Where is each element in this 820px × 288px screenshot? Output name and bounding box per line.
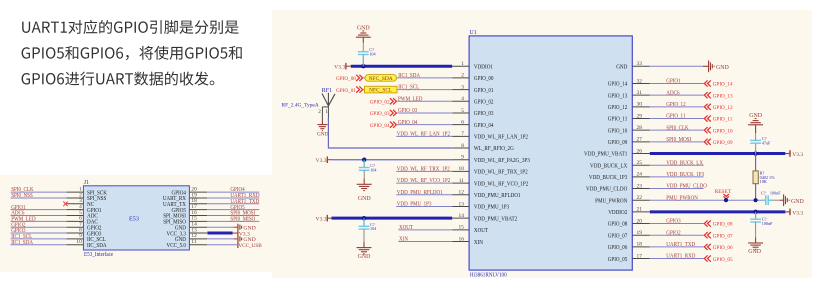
power port V3.3 (U1 pin 14 rail) [316, 215, 332, 222]
svg-text:10: 10 [459, 166, 465, 172]
svg-text:18: 18 [637, 242, 643, 248]
svg-text:PWM_LED: PWM_LED [398, 96, 423, 102]
port GPIO_07 [704, 232, 733, 239]
schematic canvas background left (E53 area) [0, 175, 273, 272]
wire net IIC1_SCL [11, 238, 67, 240]
svg-text:VDD_PMU_1P3: VDD_PMU_1P3 [474, 205, 509, 211]
svg-text:GPIO_02: GPIO_02 [370, 99, 390, 105]
wire net GPIO2 [11, 226, 67, 228]
power port GND (pin 33) [709, 60, 730, 72]
wire GPIO_12 [650, 106, 704, 108]
schematic canvas background right [272, 10, 812, 278]
svg-text:VDDIO1: VDDIO1 [474, 64, 493, 70]
U1 pin 16 XIN [452, 236, 483, 245]
svg-text:GPIO_03: GPIO_03 [398, 108, 417, 114]
J1 pin 4 GPIO1 [66, 204, 101, 214]
U1 pin 3 GPIO_01 [452, 84, 493, 93]
U1 pin 5 GPIO_03 [452, 108, 493, 117]
svg-text:GPIO_06: GPIO_06 [608, 245, 628, 251]
wire VDD_PMU_CLDO [650, 188, 704, 190]
power port V3.3 (U1 pin 9 rail) [316, 156, 332, 163]
J1 pin 13 VCC_3.3 [167, 227, 208, 237]
svg-text:V3.3: V3.3 [792, 210, 803, 216]
annotation text line 2 [22, 46, 242, 60]
svg-text:GPIO_13: GPIO_13 [713, 93, 733, 99]
J1 pin 7 GPIO2 [66, 222, 101, 232]
svg-text:1: 1 [461, 61, 464, 67]
svg-text:GPIO_14: GPIO_14 [713, 82, 733, 88]
svg-text:47uF: 47uF [762, 140, 771, 145]
power port GND (PMU_PWRON) [784, 194, 805, 206]
wire net SPI0_MOSI [207, 215, 259, 217]
svg-text:GPIO_07: GPIO_07 [608, 233, 628, 239]
svg-text:SPI0_CLK: SPI0_CLK [666, 125, 689, 131]
svg-text:20: 20 [637, 218, 643, 224]
port GPIO_13 [704, 92, 733, 99]
svg-text:104: 104 [369, 52, 376, 57]
U1 pin 12 VDD_PMU_RFLDO1 [452, 190, 520, 199]
U1 pin 9 VDD_WL_RF_PA2G_3P3 [452, 155, 530, 164]
svg-text:GPIO_09: GPIO_09 [713, 140, 733, 146]
J1 pin 11 VCC_5.0 [167, 239, 208, 249]
svg-text:RF_2.4G_TypeA: RF_2.4G_TypeA [282, 103, 319, 109]
svg-text:NFC_SDA: NFC_SDA [369, 76, 393, 82]
svg-text:GPIO_11: GPIO_11 [666, 114, 685, 120]
svg-text:GPIO_06: GPIO_06 [713, 245, 733, 251]
J1 pin 5 ADC [66, 210, 97, 220]
power port GND (J1 pin 14) [240, 225, 256, 232]
svg-text:GND: GND [317, 131, 328, 137]
port GPIO_00 [336, 75, 363, 82]
U1 pin 4 GPIO_02 [452, 96, 493, 105]
svg-text:GND: GND [748, 249, 762, 255]
svg-text:17: 17 [637, 253, 643, 259]
U1 pin 22 PMU_PWRON [595, 195, 650, 204]
svg-text:GPIO_11: GPIO_11 [608, 117, 628, 123]
svg-text:VDD_PMU_VBAT2: VDD_PMU_VBAT2 [474, 216, 517, 222]
svg-text:10: 10 [76, 239, 82, 245]
wire net GPIO1 [11, 209, 67, 211]
wire PMU_PWRON [650, 199, 762, 201]
svg-text:VDD_PMU_VBAT1: VDD_PMU_VBAT1 [584, 152, 627, 158]
port GPIO_06 [704, 244, 733, 251]
wire J1 pin 12 to GND [207, 238, 234, 240]
annotation text line 1 [22, 20, 239, 34]
svg-text:UART1_RXD: UART1_RXD [666, 254, 696, 260]
junction pin26 rail at cap [753, 151, 757, 155]
svg-text:GPIO_09: GPIO_09 [608, 140, 628, 146]
no-connect X on J1 pin 3 [63, 202, 67, 207]
svg-text:3: 3 [461, 84, 464, 90]
wire net SPI0_CLK [11, 191, 67, 193]
U1 pin 21 VDDIO2 [608, 207, 650, 216]
svg-text:GPIO_14: GPIO_14 [608, 82, 628, 88]
svg-text:5: 5 [461, 108, 464, 114]
U1 pin 11 VDD_WL_RF_VCO_1P2 [452, 178, 528, 187]
svg-text:GPIO_12: GPIO_12 [666, 102, 685, 108]
svg-text:GPIO_02: GPIO_02 [474, 99, 494, 105]
wire IIC1_SDA [364, 77, 453, 79]
svg-text:UART1_TXD: UART1_TXD [666, 242, 695, 248]
wire net GPIO5 [207, 209, 259, 211]
svg-text:GND: GND [358, 196, 372, 202]
svg-text:GND: GND [616, 65, 628, 71]
wire net UART1_RXD [207, 197, 259, 199]
capacitor C3 [359, 218, 378, 242]
ground GND below RF1 pin 2 [317, 120, 328, 137]
U1 pin 27 GPIO_09 [608, 137, 650, 146]
svg-text:1: 1 [325, 109, 328, 115]
svg-text:VDD_BUCK_LX: VDD_BUCK_LX [590, 163, 628, 169]
svg-text:GPIO_03: GPIO_03 [474, 111, 494, 117]
wire VDD_PMU_1P3 [396, 205, 452, 207]
svg-text:GPIO_12: GPIO_12 [713, 105, 733, 111]
U1 pin 28 GPIO_10 [608, 125, 650, 134]
wire net GPIO4 [207, 191, 259, 193]
svg-text:25: 25 [637, 160, 643, 166]
svg-text:GPIO2: GPIO2 [666, 230, 680, 236]
svg-text:2: 2 [318, 109, 321, 115]
J1 pin 9 IIC_SCL [66, 233, 106, 243]
port GPIO_09 [704, 139, 733, 146]
svg-text:31: 31 [637, 90, 643, 96]
svg-text:VDD_PMU_CLDO: VDD_PMU_CLDO [586, 187, 628, 193]
U1 pin 24 VDD_BUCK_1P3 [589, 172, 650, 181]
svg-text:GPIO_04: GPIO_04 [398, 120, 417, 126]
J1 pin 15 SPI_MISO [163, 216, 207, 226]
U1 pin 20 GPIO_08 [608, 218, 650, 227]
svg-text:E53_Interface: E53_Interface [84, 251, 113, 258]
svg-text:11: 11 [459, 178, 464, 184]
wire net GPIO3 [11, 232, 67, 234]
svg-text:21: 21 [637, 207, 643, 213]
svg-text:GND: GND [358, 254, 372, 260]
wire ADC6 [650, 94, 704, 96]
U1 pin 30 GPIO_12 [608, 102, 650, 111]
wire GPIO_11 [650, 118, 704, 120]
U1 pin 6 GPIO_04 [452, 119, 493, 128]
svg-text:U1: U1 [469, 30, 476, 36]
svg-text:GPIO_07: GPIO_07 [713, 233, 733, 239]
svg-text:NFC_SCL: NFC_SCL [369, 88, 392, 94]
wire net UART1_TXD [207, 203, 259, 205]
J1 pin 19 UART_RX [163, 192, 208, 202]
svg-text:J1: J1 [84, 180, 89, 186]
J1 pin 3 NC [66, 198, 94, 208]
wire net PWM_LED [11, 220, 67, 222]
svg-text:ADC6: ADC6 [666, 90, 679, 96]
svg-text:V3.3: V3.3 [334, 64, 345, 70]
svg-text:16: 16 [459, 236, 465, 242]
IC U1 body [469, 36, 632, 270]
svg-text:IIC1_SDA: IIC1_SDA [398, 73, 420, 79]
ground GND above C1 [356, 25, 371, 43]
svg-text:RESET: RESET [715, 189, 732, 195]
svg-text:12: 12 [459, 190, 465, 196]
svg-text:9: 9 [461, 155, 464, 161]
svg-text:XOUT: XOUT [474, 228, 488, 234]
capacitor C4 [750, 133, 771, 154]
wire UART1_RXD [650, 258, 704, 260]
wire GPIO1 [650, 83, 704, 85]
power port V3.3 (U1 pin 1 rail) [334, 63, 351, 70]
U1 pin 13 VDD_PMU_1P3 [452, 201, 509, 210]
U1 pin 10 VDD_WL_RF_TRX_1P2 [452, 166, 528, 175]
ground GND below C2 [357, 179, 372, 202]
svg-text:E53: E53 [129, 216, 139, 223]
svg-text:V3.3: V3.3 [316, 216, 327, 222]
svg-text:GPIO_08: GPIO_08 [608, 222, 628, 228]
svg-text:8: 8 [461, 143, 464, 149]
wire VDD_BUCK_LX [650, 164, 704, 166]
J1 pin 18 UART_TX [163, 198, 207, 208]
svg-text:SPI0_MISO: SPI0_MISO [230, 216, 255, 222]
svg-text:22: 22 [637, 195, 643, 201]
svg-text:RF1: RF1 [322, 88, 332, 94]
wire V3.3 thick (U1 pin 21) [650, 210, 786, 213]
svg-text:27: 27 [637, 137, 643, 143]
svg-text:VCC_5.0: VCC_5.0 [167, 243, 187, 249]
port GPIO_12 [704, 104, 733, 111]
wire PWM_LED [397, 100, 452, 102]
svg-text:SPI0_MOSI: SPI0_MOSI [666, 137, 691, 143]
svg-text:VDD_WL_RF_PA2G_3P3: VDD_WL_RF_PA2G_3P3 [474, 158, 530, 164]
highlighted net label NFC_SCL [365, 86, 398, 93]
wire net IIC1_SDA [11, 244, 67, 246]
svg-text:VDDIO2: VDDIO2 [608, 210, 627, 216]
wire GPIO_03 [397, 112, 452, 114]
junction on pin 9 rail [362, 158, 366, 162]
wire VDD_WL_RF_LAN_1P2 [396, 135, 452, 137]
U1 pin 7 VDD_WL_RF_LAN_1P2 [452, 131, 528, 140]
svg-text:15: 15 [459, 225, 465, 231]
ground GND below C3 [357, 242, 372, 260]
J1 pin 14 GND [175, 222, 207, 232]
U1 pin 17 GPIO_05 [608, 253, 650, 262]
svg-text:104: 104 [370, 226, 377, 231]
svg-text:GND: GND [357, 25, 371, 31]
svg-text:GND: GND [749, 113, 763, 119]
svg-text:GPIO_04: GPIO_04 [370, 123, 390, 129]
svg-text:4: 4 [461, 96, 464, 102]
svg-text:6: 6 [461, 119, 464, 125]
svg-text:VDD_WL_RF_TRX_1P2: VDD_WL_RF_TRX_1P2 [474, 170, 528, 176]
J1 pin 6 DAC [66, 216, 97, 226]
U1 pin 31 GPIO_13 [608, 90, 650, 99]
svg-text:10K: 10K [760, 179, 767, 184]
wire SPI0_CLK [650, 129, 704, 131]
J1 pin 17 GPIO5 [172, 204, 208, 214]
svg-text:19: 19 [637, 230, 643, 236]
U1 pin 23 VDD_PMU_CLDO [586, 183, 650, 192]
capacitor C5 series on PMU_PWRON [761, 191, 784, 206]
highlighted net label NFC_SDA [365, 75, 397, 82]
svg-text:GPIO_00: GPIO_00 [474, 76, 494, 82]
capacitor C6 [750, 212, 773, 238]
svg-text:100nF: 100nF [770, 191, 781, 196]
wire net ADC6 [11, 215, 67, 217]
U1 pin 8 WL_RF_RFIO_2G [452, 143, 514, 152]
power rail stem (J1 right) [237, 224, 239, 248]
svg-text:VCC_USB: VCC_USB [238, 243, 261, 249]
port RESET [715, 189, 732, 199]
J1 pin 10 IIC_SDA [66, 239, 107, 249]
wire VDD_WL_RF_TRX_1P2 [396, 170, 452, 172]
ground GND below C6 [748, 238, 763, 255]
svg-text:IIC1_SCL: IIC1_SCL [398, 85, 419, 91]
svg-text:GPIO_04: GPIO_04 [474, 123, 494, 129]
port GPIO_10 [704, 127, 733, 134]
wire VDD_WL_RF_VCO_1P2 [396, 182, 452, 184]
svg-text:VDD_PMU_RFLDO1: VDD_PMU_RFLDO1 [474, 193, 521, 199]
svg-text:GPIO_10: GPIO_10 [608, 128, 628, 134]
capacitor C1 [358, 43, 377, 66]
svg-text:26: 26 [637, 148, 643, 154]
power port V3.3 (pin 26) [785, 153, 790, 155]
wire V3.3 thick (U1 pin 26) [650, 152, 786, 155]
wire V3.3 thick (J1 pin 13) [207, 232, 232, 235]
svg-text:V3.3: V3.3 [792, 152, 803, 158]
wire net SPI0_NSS [11, 197, 67, 199]
svg-text:11: 11 [191, 239, 196, 245]
U1 pin 15 XOUT [452, 225, 488, 234]
J1 pin 8 GPIO3 [66, 227, 101, 237]
junction on pin 14 rail [362, 216, 366, 220]
svg-text:PMU_PWRON: PMU_PWRON [595, 198, 628, 204]
U1 pin 25 VDD_BUCK_LX [590, 160, 650, 169]
wire J1 pin 14 to GND [207, 226, 234, 228]
port GPIO_04 [370, 122, 397, 129]
svg-text:GPIO_00: GPIO_00 [336, 76, 356, 82]
J1 pin 16 SPI_MOSI [163, 210, 207, 220]
svg-text:2: 2 [461, 73, 464, 79]
wire GPIO3 [650, 223, 704, 225]
annotation text line 3 [22, 72, 215, 86]
port GPIO_05 [704, 255, 733, 262]
port GPIO_03 [370, 110, 397, 117]
U1 pin 19 GPIO_07 [608, 230, 650, 239]
wire XOUT [398, 229, 452, 231]
svg-text:GPIO_08: GPIO_08 [713, 222, 733, 228]
svg-text:24: 24 [637, 172, 643, 178]
svg-text:C?: C? [761, 191, 766, 196]
wire SPI0_MOSI [650, 141, 704, 143]
resistor R1 pull-up [753, 154, 775, 201]
svg-text:GPIO3: GPIO3 [666, 219, 680, 225]
svg-text:VDD_WL_RF_LAN_1P2: VDD_WL_RF_LAN_1P2 [474, 135, 528, 141]
svg-text:GND: GND [791, 199, 805, 205]
J1 pin 20 GPIO4 [172, 186, 208, 196]
wire GPIO2 [650, 234, 704, 236]
svg-text:13: 13 [459, 201, 465, 207]
connector J1 body [83, 186, 189, 250]
junction on V3.3 rail pin1 [361, 64, 365, 68]
svg-text:Hi3861RNLV100: Hi3861RNLV100 [470, 273, 507, 279]
U1 pin 26 VDD_PMU_VBAT1 [584, 148, 650, 157]
U1 pin 1 VDDIO1 [452, 61, 493, 70]
wire VDD_PMU_RFLDO1 [396, 194, 452, 196]
junction resistor on PMU_PWRON [754, 198, 758, 202]
svg-text:14: 14 [459, 213, 465, 219]
wire net SPI0_MISO [207, 220, 259, 222]
wire V3.3 to U1 pin 9 [332, 159, 453, 161]
svg-text:GPIO_01: GPIO_01 [336, 88, 356, 94]
svg-text:V3.3: V3.3 [316, 158, 327, 164]
svg-text:100nF: 100nF [762, 221, 773, 226]
wire V3.3 thick to U1 pin 1 [351, 65, 452, 68]
junction RESET on PMU_PWRON [724, 198, 728, 202]
wire V3.3 thick to U1 pin 14 [332, 217, 453, 220]
port GPIO_14 [704, 80, 733, 87]
wire J1 pin 11 to VCC_USB [207, 244, 238, 246]
J1 pin 2 SPI_NSS [66, 192, 107, 202]
svg-text:GPIO_13: GPIO_13 [608, 93, 628, 99]
svg-text:WL_RF_RFIO_2G: WL_RF_RFIO_2G [474, 146, 514, 152]
svg-text:GPIO_05: GPIO_05 [608, 257, 628, 263]
svg-text:GPIO1: GPIO1 [666, 79, 680, 85]
svg-text:VDD_WL_RF_VCO_1P2: VDD_WL_RF_VCO_1P2 [474, 181, 528, 187]
U1 pin 14 VDD_PMU_VBAT2 [452, 213, 517, 222]
capacitor C2 [359, 160, 378, 179]
J1 pin 12 GND [175, 233, 207, 243]
U1 pin 29 GPIO_11 [608, 113, 650, 122]
port GPIO_01 [336, 86, 363, 93]
svg-text:GPIO_12: GPIO_12 [608, 105, 628, 111]
svg-text:VDD_BUCK_1P3: VDD_BUCK_1P3 [589, 175, 627, 181]
svg-text:GPIO_10: GPIO_10 [713, 128, 733, 134]
U1 pin 18 GPIO_06 [608, 242, 650, 251]
wire XIN [398, 241, 452, 243]
wire GPIO_04 [397, 124, 452, 126]
power port GND (J1 pin 12) [240, 236, 256, 243]
J1 pin 1 SPI_SCK [66, 186, 107, 196]
svg-text:23: 23 [637, 183, 643, 189]
svg-text:IIC1_SDA: IIC1_SDA [11, 240, 33, 246]
svg-text:7: 7 [461, 131, 464, 137]
svg-text:32: 32 [637, 78, 643, 84]
wire VDD_BUCK_1P3 [650, 176, 704, 178]
svg-text:28: 28 [637, 125, 643, 131]
svg-text:GPIO_05: GPIO_05 [713, 257, 733, 263]
antenna RF1 [282, 88, 336, 120]
U1 pin 32 GPIO_14 [608, 78, 650, 87]
svg-text:PMU_PWRON: PMU_PWRON [666, 195, 698, 201]
power port V3.3 (pin 21) [785, 211, 790, 213]
svg-text:104: 104 [370, 167, 377, 172]
wire RF1 pin1 to U1 pin 8 [328, 118, 452, 148]
svg-text:33: 33 [637, 61, 643, 67]
svg-text:GPIO_03: GPIO_03 [370, 111, 390, 117]
svg-text:GPIO_01: GPIO_01 [474, 88, 494, 94]
U1 pin 2 GPIO_00 [452, 73, 493, 82]
svg-text:29: 29 [637, 113, 643, 119]
ground GND above C4 [748, 113, 763, 133]
port GPIO_08 [704, 220, 733, 227]
svg-text:IIC_SDA: IIC_SDA [87, 243, 107, 249]
svg-text:30: 30 [637, 102, 643, 108]
wire UART1_TXD [650, 246, 704, 248]
svg-text:GPIO_11: GPIO_11 [713, 117, 733, 123]
wire U1 pin 33 to GND [650, 65, 703, 67]
wire IIC1_SCL [364, 89, 453, 91]
port GPIO_02 [370, 98, 397, 105]
U1 pin 33 GND [616, 61, 650, 70]
junction pin21 rail at cap [753, 210, 757, 214]
port GPIO_11 [704, 115, 732, 122]
svg-text:XIN: XIN [474, 240, 484, 246]
svg-text:GND: GND [716, 65, 730, 71]
svg-text:SPI0_NSS: SPI0_NSS [11, 193, 33, 199]
